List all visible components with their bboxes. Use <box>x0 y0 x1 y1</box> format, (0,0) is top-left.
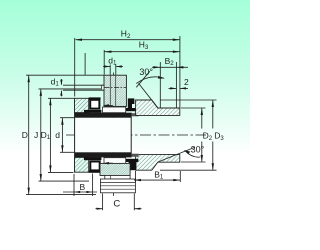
svg-text:D: D <box>22 130 28 140</box>
svg-text:30°: 30° <box>139 67 153 77</box>
svg-text:d1: d1 <box>51 76 60 87</box>
svg-text:B: B <box>80 182 86 192</box>
B1 extensions <box>136 171 181 182</box>
D3 line <box>212 100 214 170</box>
d1 left arrows <box>60 80 62 85</box>
H3 line <box>104 51 179 53</box>
left D dim line <box>28 75 30 194</box>
upper right black bar <box>128 104 132 108</box>
upper black raceway band right <box>126 108 138 111</box>
svg-text:D2: D2 <box>203 130 213 142</box>
left lower hatched block <box>75 157 89 172</box>
svg-text:d: d <box>55 130 60 140</box>
svg-text:H3: H3 <box>139 40 149 51</box>
30deg arc top <box>136 77 164 84</box>
svg-text:B1: B1 <box>154 169 164 180</box>
D1 arrows <box>49 98 51 105</box>
2-dim line <box>169 87 189 89</box>
lower sleeve-ring junction gray <box>131 154 138 157</box>
H2 line <box>76 39 180 41</box>
svg-text:2: 2 <box>184 77 189 87</box>
H2 right arrow <box>173 39 180 41</box>
d1 left ext lines <box>63 85 104 90</box>
svg-text:J: J <box>34 130 38 140</box>
B2 arrows <box>153 66 160 68</box>
central axial roller square upper <box>104 75 126 106</box>
washer nub on left of square <box>102 85 104 90</box>
d1 top extensions <box>110 65 116 75</box>
D3 ext top/bottom <box>160 100 217 170</box>
D arrows <box>28 75 30 82</box>
left ext lines d <box>60 118 75 153</box>
svg-text:C: C <box>113 198 120 209</box>
left ext lines J <box>39 89 102 181</box>
lower left white roller square <box>90 162 99 171</box>
inner ring bottom band <box>75 152 132 157</box>
small leader arrow lower cage <box>103 162 109 164</box>
H2 extension left <box>74 38 76 97</box>
C dim line <box>96 208 142 210</box>
svg-text:D1: D1 <box>41 130 51 141</box>
roller cross centerline horizontal <box>105 87 127 89</box>
30deg chamfer extension line top <box>139 83 158 107</box>
inner ring top band <box>75 113 132 118</box>
outer ring lower <box>136 155 180 171</box>
horizontal centerline <box>66 134 206 136</box>
inner ring right face line <box>130 113 132 158</box>
lower black bottom band <box>89 171 101 173</box>
B1 dim line <box>134 179 180 181</box>
lower black raceway band <box>84 157 101 160</box>
B2 line <box>152 66 188 68</box>
C arrows <box>97 208 103 210</box>
small leader arrow upper cage <box>103 104 109 106</box>
H3 left arrow <box>104 51 111 53</box>
upper black top band <box>89 97 101 99</box>
B2 extensions <box>160 62 176 108</box>
shim lines <box>100 182 135 189</box>
roller inner vertical lines <box>110 75 115 106</box>
left ext lines D1 <box>48 98 75 172</box>
upper sleeve-ring junction gray <box>131 113 138 116</box>
lower right black square <box>129 160 137 170</box>
upper left white roller square <box>90 100 99 109</box>
30 top arc arrow <box>158 76 165 79</box>
B extensions <box>74 174 93 197</box>
lower cage rectangle <box>104 158 126 164</box>
d1 top arrows <box>104 65 110 67</box>
svg-text:D3: D3 <box>214 130 224 142</box>
H2 left arrow <box>75 39 82 41</box>
short vertical tick left of d1 <box>84 53 86 75</box>
d1 left dim verticals <box>60 79 62 96</box>
D3 arrows <box>212 100 214 107</box>
left D1 dim line <box>49 98 51 172</box>
2-dim arrows <box>170 87 176 89</box>
D2 line <box>201 108 203 162</box>
30deg bottom chamfer ext <box>158 147 195 162</box>
C extensions <box>103 194 135 211</box>
left ext lines D <box>26 75 104 194</box>
outer ring upper (flanged housing washer) <box>136 100 180 115</box>
B dim line <box>63 191 97 193</box>
inner ring left face line <box>74 98 76 172</box>
svg-text:B2: B2 <box>165 56 175 67</box>
upper black raceway band <box>84 110 101 113</box>
H3 right arrow <box>173 51 180 53</box>
lower shaft washer hatched <box>100 163 130 175</box>
left J dim line <box>40 89 42 181</box>
H3 extension left <box>103 50 105 75</box>
right face extension <box>179 36 181 108</box>
d1 top dim <box>103 66 123 68</box>
inner ring bore (white) <box>75 118 132 153</box>
J arrows <box>40 89 42 96</box>
lower shim stack <box>100 179 135 193</box>
B arrows <box>74 191 80 193</box>
left upper hatched block <box>75 98 89 112</box>
30deg reference line top <box>136 71 150 87</box>
D2 ext top/bottom <box>181 108 206 162</box>
d arrows <box>61 118 63 125</box>
upper right black square <box>128 98 135 104</box>
lower black raceway band right <box>126 159 138 162</box>
vertical centerline <box>113 73 115 197</box>
svg-text:H2: H2 <box>121 29 131 40</box>
svg-text:d1: d1 <box>108 55 117 66</box>
30 bottom arc arrow <box>184 150 190 154</box>
svg-text:30°: 30° <box>191 144 205 154</box>
spacer inner vertical <box>109 176 111 180</box>
upper cage rectangle <box>103 107 126 113</box>
D2 arrows <box>201 108 203 115</box>
B1 arrows <box>134 179 141 181</box>
30deg bottom arc <box>185 151 201 158</box>
lower spacer white block <box>105 176 130 180</box>
left d dim line <box>61 118 63 153</box>
leader tails <box>109 105 113 163</box>
